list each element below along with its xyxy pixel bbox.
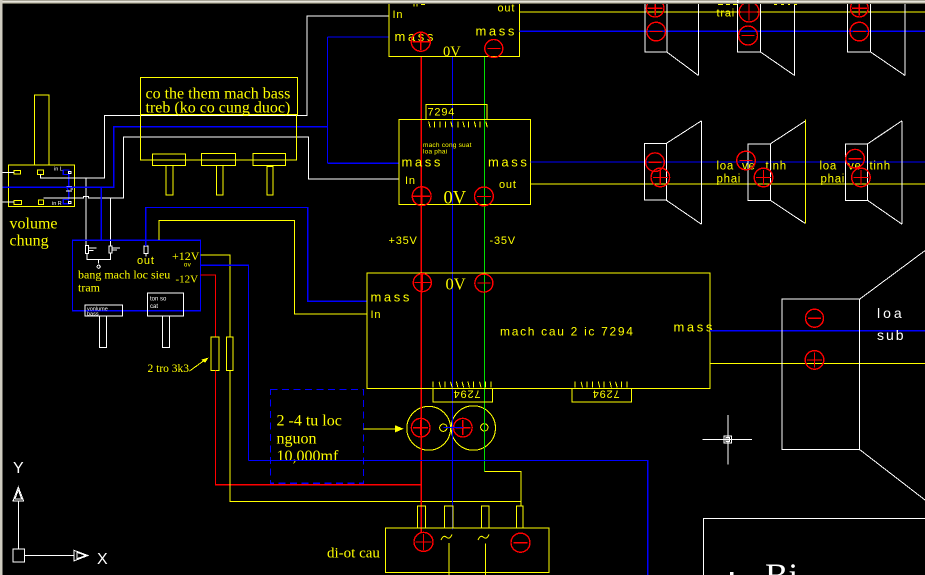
wire red +35V rail	[420, 56, 422, 533]
bridge rectifier box di-ot cau	[385, 528, 549, 573]
wire yellow filter top to big amp In	[159, 220, 366, 314]
volume pot blue pin in R	[63, 200, 68, 204]
svg-text:7294: 7294	[428, 107, 456, 119]
wire white stub to in R	[0, 201, 14, 203]
U1 plus terminal	[411, 32, 430, 51]
svg-text:sub: sub	[877, 327, 906, 343]
note dashed box 2-4 tu loc nguon	[271, 390, 364, 484]
slide pot P2	[202, 154, 236, 195]
svg-text:nguon: nguon	[277, 431, 317, 448]
speaker mid S2 yellow edge	[804, 120, 806, 224]
amp box U3 (mach cau 2 ic 7294)	[367, 273, 710, 388]
svg-text:In: In	[393, 9, 404, 21]
svg-text:bass: bass	[87, 312, 99, 318]
speaker top B plus	[739, 2, 759, 22]
title block frame	[704, 519, 925, 575]
window frame left border	[0, 0, 2, 575]
amp box U1 (top)	[389, 2, 520, 56]
speaker top C plus	[851, 0, 869, 17]
U3 minus terminal	[475, 274, 493, 292]
volume pot wiper arrow marks	[66, 187, 73, 191]
svg-text:ov: ov	[184, 262, 192, 269]
wire red -12V to R1	[201, 275, 216, 337]
label loa ve tinh phai 2	[820, 161, 891, 186]
wire blue between capacitors	[443, 427, 463, 429]
bridge pin 1	[417, 506, 425, 528]
filter transistor link wire	[87, 253, 111, 260]
window frame top bar	[0, 0, 925, 4]
svg-text:loa: loa	[717, 161, 734, 173]
speaker mid S1 minus	[646, 153, 665, 172]
U2 7294 label box	[426, 104, 487, 119]
bridge AC tilde 1	[441, 534, 452, 540]
crosshair cursor	[702, 415, 752, 464]
speaker mid S1	[645, 121, 702, 224]
svg-text:trai: trai	[717, 8, 735, 20]
svg-text:phai: phai	[717, 174, 742, 186]
wire blue mass into mid amp	[328, 162, 399, 164]
speaker mid S3	[846, 121, 903, 224]
volume pot blue pin in L	[63, 170, 69, 174]
wire yellow R2 to bridge pin4	[230, 371, 521, 502]
svg-text:in R: in R	[52, 201, 62, 207]
svg-text:loa: loa	[820, 161, 837, 173]
svg-text:tinh: tinh	[766, 161, 787, 173]
wire white stub to in L	[0, 172, 14, 174]
toolbar white tick	[737, 0, 739, 3]
capacitor C1	[407, 406, 451, 450]
note box co the them mach bass treb	[140, 78, 297, 115]
svg-text:0V: 0V	[443, 44, 461, 60]
wire red R1 to bridge plus	[216, 371, 422, 485]
wire green -35V rail	[484, 56, 486, 471]
volume pot VR1 body	[8, 95, 74, 206]
volume pot pin 1 (in L left)	[14, 170, 20, 174]
wire yellow mid speaker line	[531, 183, 925, 185]
wire yellow sub line	[710, 362, 925, 364]
svg-text:7294: 7294	[592, 387, 620, 399]
filter link stub	[97, 260, 100, 269]
U3 IC footprint 2 (7294 flipped)	[572, 387, 632, 402]
U3 IC pin ticks group 1	[433, 382, 491, 388]
svg-text:di-ot cau: di-ot cau	[327, 546, 380, 562]
wire white A branch down to filter transistor 1	[85, 178, 87, 246]
svg-text:-35V: -35V	[490, 235, 516, 247]
bridge AC tilde 2	[478, 534, 489, 540]
volume pot pin 4 (wiper R)	[39, 200, 44, 205]
svg-text:0V: 0V	[444, 189, 467, 209]
slide pot P3	[253, 154, 285, 195]
wire blue mass into top amp	[328, 36, 390, 38]
volume pot solder dots	[69, 172, 71, 174]
speaker sub	[782, 251, 925, 500]
wire yellow +12V to R2	[201, 255, 231, 337]
wire blue mid speaker line	[531, 161, 925, 163]
svg-text:mass: mass	[476, 24, 517, 39]
filter box bang mach loc sieu tram	[72, 240, 200, 311]
U3 IC pin ticks group 2	[575, 382, 627, 388]
svg-text:2 -4 tu loc: 2 -4 tu loc	[277, 413, 342, 430]
svg-text:mass: mass	[371, 290, 412, 305]
U3 IC footprint 1 (7294 flipped)	[433, 387, 493, 402]
svg-text:mass: mass	[488, 155, 529, 170]
svg-text:X: X	[97, 551, 108, 568]
speaker mid S2 plus	[754, 168, 773, 187]
wire yellow green-rail jog to bridge pin4	[485, 471, 521, 506]
svg-text:treb (ko co cung duoc): treb (ko co cung duoc)	[146, 100, 291, 117]
svg-text:7294: 7294	[453, 387, 481, 399]
volume pot pin 3 (in R left)	[14, 200, 21, 204]
slide pot P1	[152, 154, 185, 195]
svg-text:bang mach loc sieu: bang mach loc sieu	[78, 268, 170, 282]
bridge pin 2	[445, 506, 453, 528]
bass treb pot frame	[141, 115, 297, 160]
filter transistor Q1	[85, 246, 96, 254]
arrow to capacitors	[363, 425, 403, 432]
wire blue sub line	[710, 330, 925, 332]
title block small letter fragment	[730, 572, 734, 575]
svg-text:10,000mf: 10,000mf	[277, 448, 339, 465]
svg-text:phai: phai	[821, 174, 846, 186]
svg-text:tram: tram	[78, 281, 101, 295]
U1 minus terminal	[485, 40, 503, 58]
speaker mid S2 minus	[737, 151, 756, 170]
capacitor C2	[451, 406, 495, 450]
svg-text:-12V: -12V	[176, 274, 199, 286]
svg-text:mass: mass	[674, 320, 715, 335]
filter transistor Q2	[109, 246, 120, 253]
svg-text:out: out	[137, 255, 155, 267]
speaker mid S3 plus	[852, 168, 871, 187]
speaker top A minus	[647, 22, 666, 41]
bridge pin 4	[516, 506, 523, 528]
resistor R1	[211, 337, 219, 371]
amp box U2 (middle)	[399, 119, 531, 204]
wire blue 0V from filter box	[201, 265, 249, 460]
speaker sub minus	[806, 309, 824, 327]
svg-text:mach cau 2 ic 7294: mach cau 2 ic 7294	[500, 325, 635, 339]
volume pot wiper link wire	[67, 174, 69, 199]
wire white A: wiper L to top amp In	[41, 16, 390, 178]
svg-text:Y: Y	[13, 460, 24, 477]
volume pot pin 2 (wiper L)	[38, 170, 44, 174]
svg-text:2 tro 3k3: 2 tro 3k3	[148, 363, 190, 375]
wire white B branch down to filter transistor 2	[110, 198, 112, 246]
wire yellow AC input 1	[448, 543, 450, 575]
wire blue mass branch to filter box	[100, 187, 102, 240]
wire blue 0V bottom rail	[249, 460, 648, 575]
wire blue mass rail from left edge	[0, 127, 328, 187]
wire blue top speaker line	[520, 30, 925, 32]
bridge pin 3	[482, 506, 489, 528]
svg-text:ton so: ton so	[150, 297, 167, 303]
svg-text:out: out	[499, 179, 517, 191]
speaker top B	[738, 2, 795, 76]
UCS icon	[13, 460, 108, 568]
svg-text:loa: loa	[877, 305, 905, 321]
U2 IC pin ticks	[429, 122, 488, 128]
svg-text:In: In	[371, 309, 382, 321]
speaker top C minus	[850, 22, 869, 41]
svg-text:tinh: tinh	[870, 161, 891, 173]
bridge plus terminal	[414, 532, 433, 551]
U2 minus terminal	[475, 187, 494, 206]
svg-text:mass: mass	[402, 155, 443, 170]
U1 cut-off label fragments	[414, 4, 425, 7]
U2 plus terminal	[412, 187, 431, 206]
svg-text:chung: chung	[10, 233, 49, 250]
filter out pin	[144, 246, 148, 256]
connector ton so cat	[147, 293, 183, 348]
label fragments cut by toolbar	[718, 3, 797, 5]
arrow to resistors	[190, 358, 209, 372]
bridge minus terminal	[511, 533, 530, 552]
connector vonlume bass	[85, 305, 123, 348]
wire white B: wiper R to mid amp In	[44, 137, 399, 198]
svg-text:Bi: Bi	[765, 557, 798, 575]
wire yellow top speaker line	[520, 11, 925, 13]
speaker mid S3 minus	[846, 149, 865, 168]
speaker top A plus	[646, 0, 664, 17]
speaker top B minus	[739, 26, 758, 45]
speaker sub plus	[805, 351, 824, 370]
wire blue mass riser	[327, 37, 329, 163]
svg-text:out: out	[498, 3, 516, 15]
speaker top C	[848, 2, 905, 76]
svg-text:+35V: +35V	[389, 235, 418, 247]
svg-text:volume: volume	[10, 216, 58, 233]
label loa ve tinh phai 1	[717, 161, 787, 186]
svg-text:0V: 0V	[446, 275, 466, 294]
svg-text:cat: cat	[150, 304, 158, 310]
speaker top A	[645, 2, 698, 76]
wire blue filter out to big amp mass	[146, 207, 367, 301]
speaker mid S2	[748, 121, 805, 224]
svg-text:In: In	[405, 175, 416, 187]
wire yellow AC input 2	[485, 544, 487, 575]
svg-text:in L: in L	[54, 167, 63, 173]
resistor R2	[227, 337, 233, 371]
wire blue center 0V rail	[451, 56, 453, 529]
speaker mid S1 plus	[651, 168, 670, 187]
U3 plus terminal	[413, 274, 431, 292]
